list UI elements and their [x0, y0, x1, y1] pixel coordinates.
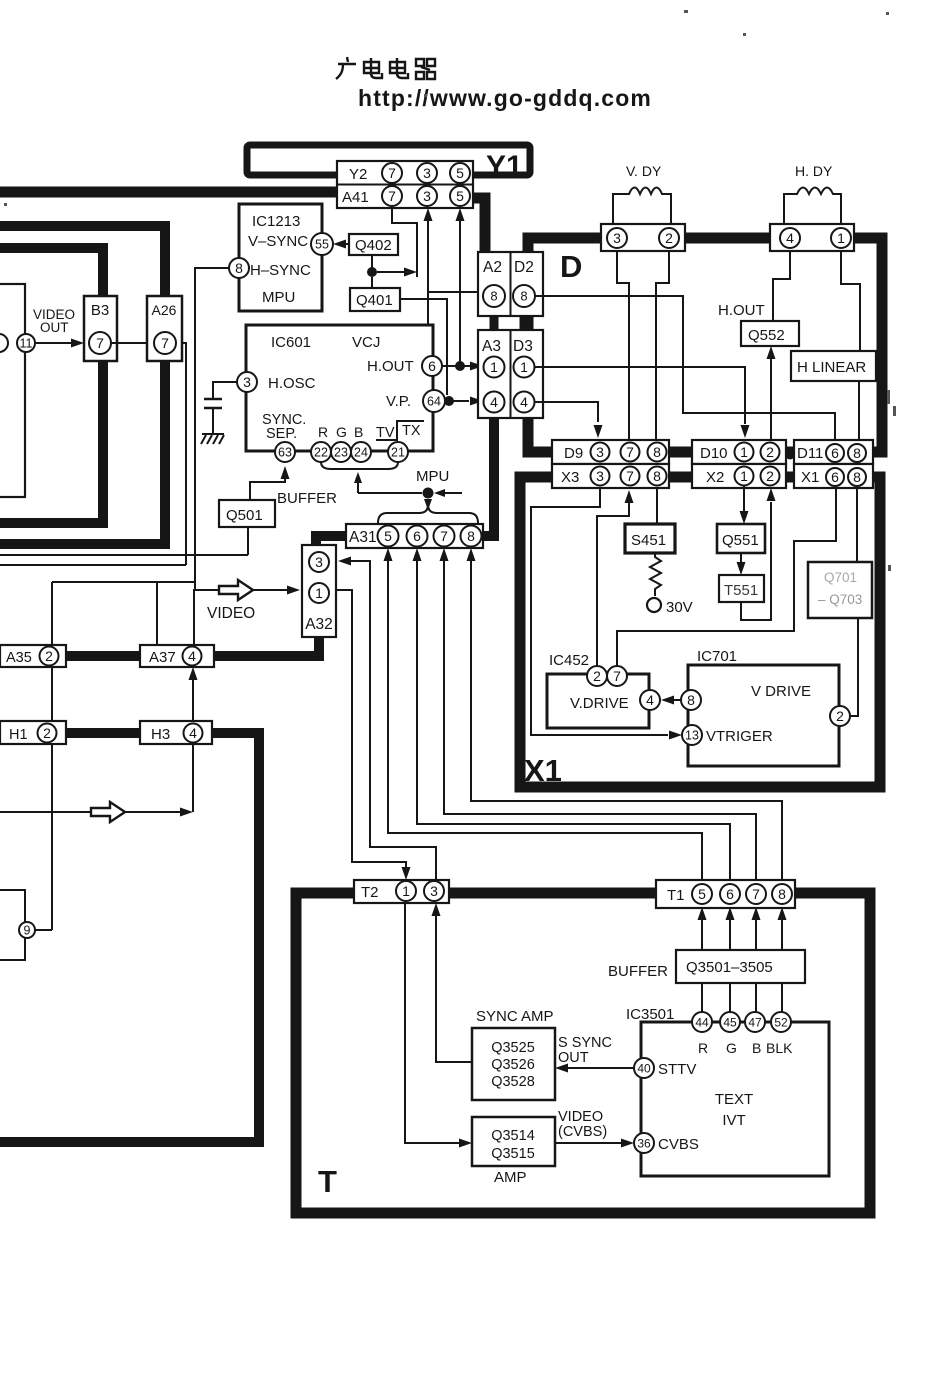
- connector H.DY body: [770, 224, 854, 251]
- inductor H.DY coil: [784, 188, 841, 226]
- wire A35 pin2 loop up: [52, 582, 195, 651]
- arrowhead up into A31 pin7: [440, 548, 449, 561]
- svg-text:Q701: Q701: [824, 570, 857, 585]
- wire thick link D2 to D3: [520, 316, 529, 330]
- wire thick bus B3 net top: [0, 248, 103, 296]
- arrowhead up into A31 pin6: [413, 548, 422, 561]
- svg-text:64: 64: [427, 395, 441, 409]
- svg-text:7: 7: [752, 886, 760, 902]
- wire T1 pin6 to A31 pin6: [417, 560, 730, 884]
- svg-text:V–SYNC: V–SYNC: [248, 233, 308, 250]
- svg-text:1: 1: [315, 585, 323, 601]
- wire thick link A37 to A32: [214, 651, 324, 661]
- svg-text:A26: A26: [152, 302, 177, 318]
- pin H1-2: [38, 724, 57, 743]
- pin A41-3: [417, 186, 437, 206]
- pin Y2-7: [382, 163, 402, 183]
- svg-text:D: D: [560, 249, 582, 284]
- board frame X1: [520, 477, 880, 787]
- svg-text:A32: A32: [305, 616, 333, 633]
- svg-text:SYNC AMP: SYNC AMP: [476, 1008, 554, 1025]
- svg-text:6: 6: [428, 358, 436, 374]
- svg-text:52: 52: [774, 1015, 788, 1029]
- svg-text:IC701: IC701: [697, 648, 737, 665]
- svg-text:STTV: STTV: [658, 1061, 696, 1078]
- wire V.P. junction to A3 pin4: [453, 400, 469, 402]
- svg-text:7: 7: [613, 668, 621, 684]
- svg-text:A2: A2: [483, 259, 502, 276]
- arrowhead into IC452 pin4: [661, 696, 674, 705]
- pin B3-7: [89, 332, 111, 354]
- svg-text:4: 4: [520, 394, 528, 410]
- pin IC3501-40 STTV: [634, 1058, 654, 1078]
- wire junction down to Q401: [371, 277, 373, 288]
- pin 9: [19, 922, 35, 938]
- pin Y2-5: [450, 163, 470, 183]
- svg-text:D3: D3: [513, 338, 533, 355]
- svg-text:IVT: IVT: [722, 1112, 745, 1129]
- pin A41-7: [382, 186, 402, 206]
- svg-text:8: 8: [653, 444, 661, 460]
- connector X3 body: [552, 464, 669, 488]
- wire Q551 to T551: [740, 553, 742, 562]
- wire H.OUT pin6 up to A41 pin3: [427, 219, 429, 356]
- svg-text:3: 3: [423, 188, 431, 204]
- arrowhead up into T1 pin 1: [698, 907, 707, 920]
- svg-text:H.OUT: H.OUT: [367, 358, 414, 375]
- svg-text:Q3515: Q3515: [491, 1146, 535, 1162]
- svg-text:5: 5: [698, 886, 706, 902]
- svg-text:9: 9: [24, 924, 31, 938]
- arrowhead up into RGB bracket: [354, 472, 362, 483]
- pin X1-6: [826, 468, 844, 486]
- arrowhead into IC701 pin13: [669, 731, 682, 740]
- svg-text:B3: B3: [91, 302, 109, 319]
- pin X2-2: [761, 467, 780, 486]
- svg-text:4: 4: [188, 648, 196, 664]
- svg-text:R: R: [698, 1040, 708, 1056]
- arrowhead down into Q551: [740, 511, 749, 524]
- arrowhead up into T1 pin 3: [752, 907, 761, 920]
- wire X3 pin3 to IC701 pin13 VTRIGER: [531, 488, 668, 735]
- pin A31-5: [378, 526, 399, 547]
- svg-text:– Q703: – Q703: [818, 592, 862, 607]
- arrowhead up into A41 pin5: [456, 208, 465, 221]
- wire Q701-Q703 to IC701 pin2: [851, 618, 858, 716]
- svg-text:VIDEO: VIDEO: [207, 605, 255, 622]
- svg-text:BUFFER: BUFFER: [277, 490, 337, 507]
- arrowhead into Q3525: [555, 1064, 568, 1073]
- pin D3-1: [514, 357, 535, 378]
- svg-text:8: 8: [520, 289, 527, 304]
- wire T551 to X2 pin2: [741, 502, 771, 620]
- pin A26-7: [154, 332, 176, 354]
- pin D9-7: [621, 443, 640, 462]
- svg-text:8: 8: [490, 289, 497, 304]
- decorative: [4, 10, 896, 571]
- svg-text:Q551: Q551: [722, 532, 759, 549]
- wire A26 pin7 return line: [0, 343, 186, 565]
- wire D3 pin1 to D10 pin1: [534, 367, 745, 424]
- pin D2-8: [513, 285, 535, 307]
- svg-text:36: 36: [637, 1136, 651, 1150]
- connector X1-row body: [794, 464, 873, 488]
- svg-text:IC3501: IC3501: [626, 1006, 674, 1023]
- pin partial circle at page edge: [0, 334, 8, 352]
- wire thick A32 bottom stub: [314, 637, 324, 656]
- transistor Q402 body: [349, 234, 398, 255]
- svg-text:Y2: Y2: [349, 166, 367, 183]
- svg-text:24: 24: [354, 446, 368, 460]
- pin H.DY-1: [831, 228, 851, 248]
- svg-text:AMP: AMP: [494, 1169, 527, 1186]
- svg-text:A31: A31: [349, 529, 377, 546]
- bracket under pins 22-24 and 21: [321, 462, 398, 469]
- pin IC3501-52 BLK: [771, 1012, 791, 1032]
- svg-text:T: T: [318, 1164, 337, 1199]
- svg-text:Q3514: Q3514: [491, 1128, 535, 1144]
- wire X3 pin8 to S451: [656, 488, 658, 524]
- svg-text:7: 7: [161, 335, 169, 351]
- svg-text:63: 63: [278, 446, 292, 460]
- ground symbol: [201, 434, 224, 444]
- svg-text:2: 2: [593, 668, 601, 684]
- connector A3/D3 divider: [510, 330, 512, 418]
- switch mark TV/TX step line: [376, 421, 424, 440]
- pin IC452-4: [640, 690, 660, 710]
- junction node between X2 and X1: [786, 474, 795, 483]
- pin T1-6: [720, 884, 740, 904]
- svg-text:H.OSC: H.OSC: [268, 375, 316, 392]
- svg-text:X1: X1: [524, 753, 562, 788]
- svg-text:11: 11: [20, 337, 33, 351]
- arrowhead into A3 pin1: [470, 362, 483, 371]
- pin A2-8: [483, 285, 505, 307]
- svg-text:T2: T2: [361, 884, 379, 901]
- pin IC601-22 R: [311, 442, 331, 462]
- connector D11 body: [794, 440, 873, 464]
- wire Q3514 to IC3501 pin36: [555, 1142, 622, 1144]
- wire IC1213 pin8 H-SYNC line: [195, 268, 229, 590]
- wire A32 pin1 down to T2 pin1: [336, 590, 406, 868]
- wire thick bus B3 net bottom: [0, 361, 103, 523]
- pin D11-8: [848, 444, 866, 462]
- svg-text:Q3526: Q3526: [491, 1057, 535, 1073]
- wire B3 pin7 to A26 pin7: [111, 342, 147, 344]
- wire horizontal into block arrow: [0, 811, 91, 813]
- svg-text:VIDEO: VIDEO: [558, 1109, 603, 1125]
- wire D10 pin2 to Q552: [770, 358, 772, 443]
- svg-text:R: R: [318, 424, 328, 440]
- arrowhead down into T551: [737, 562, 746, 575]
- wire MPU to RGB bracket: [358, 481, 422, 493]
- svg-text:3: 3: [596, 468, 604, 484]
- pin A35-2: [40, 647, 59, 666]
- svg-text:6: 6: [831, 445, 839, 461]
- wire T1 pin8 to A31 pin8: [471, 560, 782, 884]
- arrowhead into A32 pin1: [287, 586, 300, 595]
- pin D10-1: [735, 443, 754, 462]
- pin T2-3: [424, 881, 444, 901]
- IC U452 V.DRIVE body: [547, 674, 649, 728]
- arrowhead down into D10 pin1: [741, 425, 750, 438]
- svg-text:7: 7: [440, 528, 448, 544]
- svg-text:S451: S451: [631, 532, 666, 549]
- svg-text:A3: A3: [482, 338, 501, 355]
- pin IC3501-44 R: [692, 1012, 712, 1032]
- pin T2-1: [396, 881, 416, 901]
- svg-text:55: 55: [315, 238, 329, 252]
- svg-text:TX: TX: [402, 423, 421, 439]
- svg-text:D2: D2: [514, 259, 534, 276]
- svg-text:(CVBS): (CVBS): [558, 1124, 607, 1140]
- svg-text:5: 5: [384, 528, 392, 544]
- svg-text:8: 8: [853, 469, 861, 485]
- wire A41 pin7 drop: [392, 208, 417, 277]
- wire A35 pin2 to H1 pin2: [51, 667, 53, 721]
- wire H.DY pin4 to Q552: [773, 251, 790, 321]
- connector D10 body: [692, 440, 786, 464]
- svg-text:47: 47: [748, 1015, 762, 1029]
- wire T2 pin3 up to A32 pin3: [350, 561, 436, 880]
- connector A35 body: [0, 645, 66, 667]
- connector A37 body: [140, 645, 214, 667]
- pin IC1213-55 V-SYNC: [311, 233, 333, 255]
- pin V.DY-2: [659, 228, 679, 248]
- pin D9-3: [591, 443, 610, 462]
- svg-text:V. DY: V. DY: [626, 163, 662, 179]
- wire X2 pin1 to Q551: [743, 486, 745, 511]
- svg-text:7: 7: [626, 468, 634, 484]
- svg-text:H3: H3: [151, 726, 170, 743]
- IC U701 body: [688, 665, 839, 766]
- svg-text:Q501: Q501: [226, 507, 263, 524]
- svg-text:21: 21: [391, 446, 405, 460]
- pin IC701-2: [830, 706, 850, 726]
- svg-text:D9: D9: [564, 445, 583, 462]
- svg-text:3: 3: [243, 374, 251, 390]
- pin A31-6: [407, 526, 428, 547]
- wire capacitor to ground: [212, 409, 214, 434]
- svg-text:1: 1: [490, 359, 498, 375]
- svg-text:7: 7: [388, 188, 396, 204]
- pin Y2-3: [417, 163, 437, 183]
- connector Y2/A41 body: [337, 161, 473, 208]
- wire thick link H1-H3: [66, 728, 140, 738]
- arrowhead into IC3501 pin36: [621, 1139, 634, 1148]
- pin IC452-7: [607, 666, 627, 686]
- svg-text:H.OUT: H.OUT: [718, 302, 765, 319]
- pin D3-4: [514, 392, 535, 413]
- wire junction down to A37 pin4: [194, 590, 219, 645]
- wire V.DY pin2 to D9 pin8: [656, 251, 669, 442]
- svg-text:Y1: Y1: [486, 150, 523, 183]
- svg-text:BUFFER: BUFFER: [608, 963, 668, 980]
- svg-text:7: 7: [626, 444, 634, 460]
- connector H3 body: [140, 721, 212, 744]
- connector T1 body: [656, 880, 795, 908]
- board frame D: [528, 238, 882, 452]
- board frame T: [296, 893, 870, 1213]
- arrowhead left into MPU node: [434, 489, 445, 497]
- wire thick bus A3 down to A31: [489, 418, 499, 540]
- svg-text:8: 8: [467, 528, 475, 544]
- svg-text:Q3501–3505: Q3501–3505: [686, 959, 773, 976]
- svg-text:8: 8: [853, 445, 861, 461]
- wire buffer input 4 from IC3501: [781, 983, 783, 1012]
- connector T2 body: [354, 880, 449, 903]
- block arrow (H line): [91, 802, 125, 822]
- svg-text:H LINEAR: H LINEAR: [797, 359, 866, 376]
- svg-text:4: 4: [786, 230, 794, 246]
- connector X2 body: [692, 464, 786, 488]
- svg-text:22: 22: [314, 446, 328, 460]
- svg-text:2: 2: [665, 230, 673, 246]
- svg-text:IC1213: IC1213: [252, 213, 300, 230]
- svg-text:X1: X1: [801, 469, 819, 486]
- junction node on H.OUT line: [455, 361, 465, 371]
- svg-text:8: 8: [687, 692, 695, 708]
- svg-text:Q552: Q552: [748, 327, 785, 344]
- junction node MPU: [423, 488, 434, 499]
- wire H.OUT pin6 to A3 pin1: [442, 365, 471, 367]
- arrowhead up into X2 pin2: [767, 488, 776, 501]
- transformer T551 body: [719, 575, 764, 602]
- svg-text:A37: A37: [149, 649, 176, 666]
- svg-text:V.P.: V.P.: [386, 393, 411, 410]
- capacitor C601 plate top: [204, 398, 222, 401]
- pin A3-1: [484, 357, 505, 378]
- svg-text:G: G: [336, 424, 347, 440]
- svg-text:S SYNC: S SYNC: [558, 1035, 612, 1051]
- wire H1 pin2 down to pin9: [35, 744, 52, 930]
- arrowhead into A32 pin3: [338, 557, 351, 566]
- pin D11-6: [826, 444, 844, 462]
- pin X2-1: [735, 467, 754, 486]
- pin IC3501-47 B: [745, 1012, 765, 1032]
- wire thick link X1 row to X1 frame: [873, 473, 880, 482]
- svg-text:B: B: [354, 424, 363, 440]
- arrowhead into A41-7 vertical: [404, 268, 417, 277]
- connector partial at left edge: [0, 284, 25, 497]
- wire H3 pin4 down to arrow line: [192, 744, 194, 812]
- svg-text:IC601: IC601: [271, 334, 311, 351]
- arrowhead into B3 pin7: [71, 339, 84, 348]
- connector V.DY body: [601, 224, 685, 251]
- block H LINEAR body: [791, 351, 876, 381]
- pin A3-4: [484, 392, 505, 413]
- wire D2 pin8 to D11 pin6: [535, 296, 835, 442]
- wire junction up to A41 pin5: [459, 219, 461, 366]
- svg-text:5: 5: [456, 165, 464, 181]
- svg-text:G: G: [726, 1040, 737, 1056]
- arrowhead up into T1 pin 2: [726, 907, 735, 920]
- wire thick bus H3 right down and left: [0, 733, 259, 1142]
- arrowhead up into A31 pin5: [384, 548, 393, 561]
- board frame Y1: [247, 145, 530, 175]
- pin T1-8: [772, 884, 792, 904]
- wire buffer input 3 from IC3501: [755, 983, 757, 1012]
- svg-text:IC452: IC452: [549, 652, 589, 669]
- arrowhead up into T1 pin 4: [778, 907, 787, 920]
- svg-text:44: 44: [695, 1015, 709, 1029]
- wire IC452 pin2 to X3 pin7: [597, 502, 629, 666]
- wire Q402 output to IC1213 pin55: [341, 243, 349, 245]
- block arrow VIDEO: [219, 580, 253, 600]
- wire pin11 to B3: [35, 342, 72, 344]
- pin A32-3: [309, 552, 329, 572]
- svg-text:1: 1: [740, 468, 748, 484]
- wire thick bus from left edge to connector A41: [0, 187, 338, 198]
- block Q3501-3505 buffer body: [676, 950, 805, 983]
- svg-text:A41: A41: [342, 189, 369, 206]
- svg-text:3: 3: [596, 444, 604, 460]
- wire thick link X3-X2: [669, 472, 692, 481]
- block Q3514/Q3515 body: [472, 1117, 555, 1166]
- connector H1 body: [0, 721, 66, 744]
- svg-text:2: 2: [766, 444, 774, 460]
- wire Q402 bottom to junction: [371, 255, 373, 272]
- svg-text:1: 1: [520, 359, 528, 375]
- connector A2/D2 body: [478, 252, 543, 316]
- connector A2/D2 divider: [510, 252, 512, 316]
- svg-text:X2: X2: [706, 469, 724, 486]
- pin IC601-6 H.OUT: [422, 356, 442, 376]
- svg-text:8: 8: [235, 260, 243, 276]
- svg-text:2: 2: [766, 468, 774, 484]
- pin H3-4: [184, 724, 203, 743]
- arrowhead up into pin63: [281, 466, 290, 479]
- arrowhead into Q3514: [459, 1139, 472, 1148]
- svg-text:OUT: OUT: [558, 1050, 589, 1066]
- svg-text:Q401: Q401: [356, 292, 393, 309]
- wire T1 pin7 to A31 pin7: [444, 560, 756, 884]
- svg-text:3: 3: [423, 165, 431, 181]
- svg-text:6: 6: [413, 528, 421, 544]
- arrowhead up into A31 pin8: [467, 548, 476, 561]
- pin IC601-24 B: [351, 442, 371, 462]
- svg-text:CVBS: CVBS: [658, 1136, 699, 1153]
- svg-text:H. DY: H. DY: [795, 163, 833, 179]
- pin IC601-63 SYNC SEP: [275, 442, 295, 462]
- wire buffer output 2 to T1: [729, 919, 731, 950]
- pin T1-5: [692, 884, 712, 904]
- wire buffer input 1 from IC3501: [701, 983, 703, 1012]
- svg-text:7: 7: [96, 335, 104, 351]
- svg-text:H–SYNC: H–SYNC: [250, 262, 311, 279]
- wire thick link D10-D11: [786, 449, 794, 456]
- pin IC601-21 TV/TX: [388, 442, 408, 462]
- pin X3-3: [591, 467, 610, 486]
- pin IC601-23 G: [331, 442, 351, 462]
- pin A41-5: [450, 186, 470, 206]
- svg-text:MPU: MPU: [262, 289, 295, 306]
- svg-text:6: 6: [831, 469, 839, 485]
- svg-text:6: 6: [726, 886, 734, 902]
- pin IC452-2: [587, 666, 607, 686]
- block S451 body: [625, 524, 675, 553]
- pin IC1213-8 H-SYNC: [229, 258, 249, 278]
- svg-text:3: 3: [315, 554, 323, 570]
- wire thick link A2 to A3: [490, 316, 499, 330]
- wire IC452 pin7 to X1 pin6: [617, 487, 836, 666]
- svg-text:45: 45: [723, 1015, 737, 1029]
- wire thick bus A41 to connector A2: [473, 198, 485, 252]
- svg-text:MPU: MPU: [416, 468, 449, 485]
- capacitor C601 plate bottom: [204, 407, 222, 410]
- pin A37-4: [183, 647, 202, 666]
- pin A31-8: [461, 526, 482, 547]
